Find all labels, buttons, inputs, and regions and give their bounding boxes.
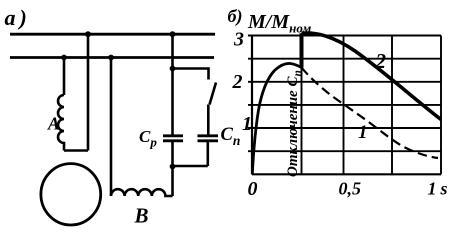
winding A (inductor) [58, 95, 64, 151]
svg-text:0,5: 0,5 [339, 179, 362, 199]
svg-text:0: 0 [248, 178, 258, 200]
wire: switch lower contact down to Cn top plate [207, 105, 210, 135]
wire: Cp bottom plate down to junction [171, 142, 174, 167]
curve 1 rising branch (solid) [252, 63, 301, 174]
winding B (inductor) [111, 189, 173, 196]
chart x-axis [252, 173, 441, 175]
node: junction below Cp [170, 164, 176, 170]
svg-text:1: 1 [358, 122, 368, 143]
svg-text:а): а) [5, 5, 31, 30]
wire: from line 1 down to Cp top plate [171, 34, 174, 135]
chart grid horizontal lines [252, 36, 441, 152]
switch blade (open) [210, 83, 217, 105]
node: junction at switch branch [170, 66, 176, 72]
wire: from line 2 down to coil A [63, 58, 66, 96]
svg-text:В: В [134, 204, 149, 228]
capacitor Cn plates [198, 136, 219, 141]
wire: from line 2 down to coil B [110, 58, 113, 197]
svg-text:б): б) [228, 6, 243, 27]
y-axis ticks [248, 36, 252, 152]
curve 1 falling branch (dashed) [302, 68, 439, 158]
chart y-axis [251, 36, 253, 175]
wire: supply line 1 [10, 33, 215, 36]
svg-text:Сп: Сп [221, 125, 241, 148]
torque jump line at Cn disconnection [300, 33, 304, 67]
curve 2 (with both capacitors, thick) [302, 33, 442, 119]
wire: supply line 2 [10, 56, 214, 59]
svg-text:3: 3 [233, 29, 244, 51]
svg-text:А: А [47, 114, 60, 134]
svg-text:2: 2 [375, 49, 387, 73]
wire: horizontal joining Cp and Cn bottoms [173, 165, 208, 168]
node: junction on line 2 at coil B tap [108, 55, 114, 61]
motor rotor circle [41, 164, 101, 225]
node: junction on line 1 at capacitor branch [170, 31, 176, 37]
chart grid vertical lines [302, 36, 442, 175]
svg-text:1s: 1s [428, 179, 448, 199]
wire: up from joining wire to Cn bottom plate [207, 142, 210, 167]
svg-text:2: 2 [232, 71, 243, 93]
node: junction on line 1 at x=88 [85, 31, 91, 37]
wire: branch to switch [173, 69, 209, 80]
capacitor Cp plates [163, 136, 183, 141]
wire: coil A bottom horizontal [64, 149, 88, 152]
node: junction on line 2 at coil A tap [61, 55, 67, 61]
svg-text:Ср: Ср [139, 127, 157, 150]
wire: coil B right end up to capacitor junction [171, 167, 174, 197]
wire: from line 1 down to coil A bottom [87, 34, 90, 150]
svg-text:1: 1 [242, 113, 252, 135]
